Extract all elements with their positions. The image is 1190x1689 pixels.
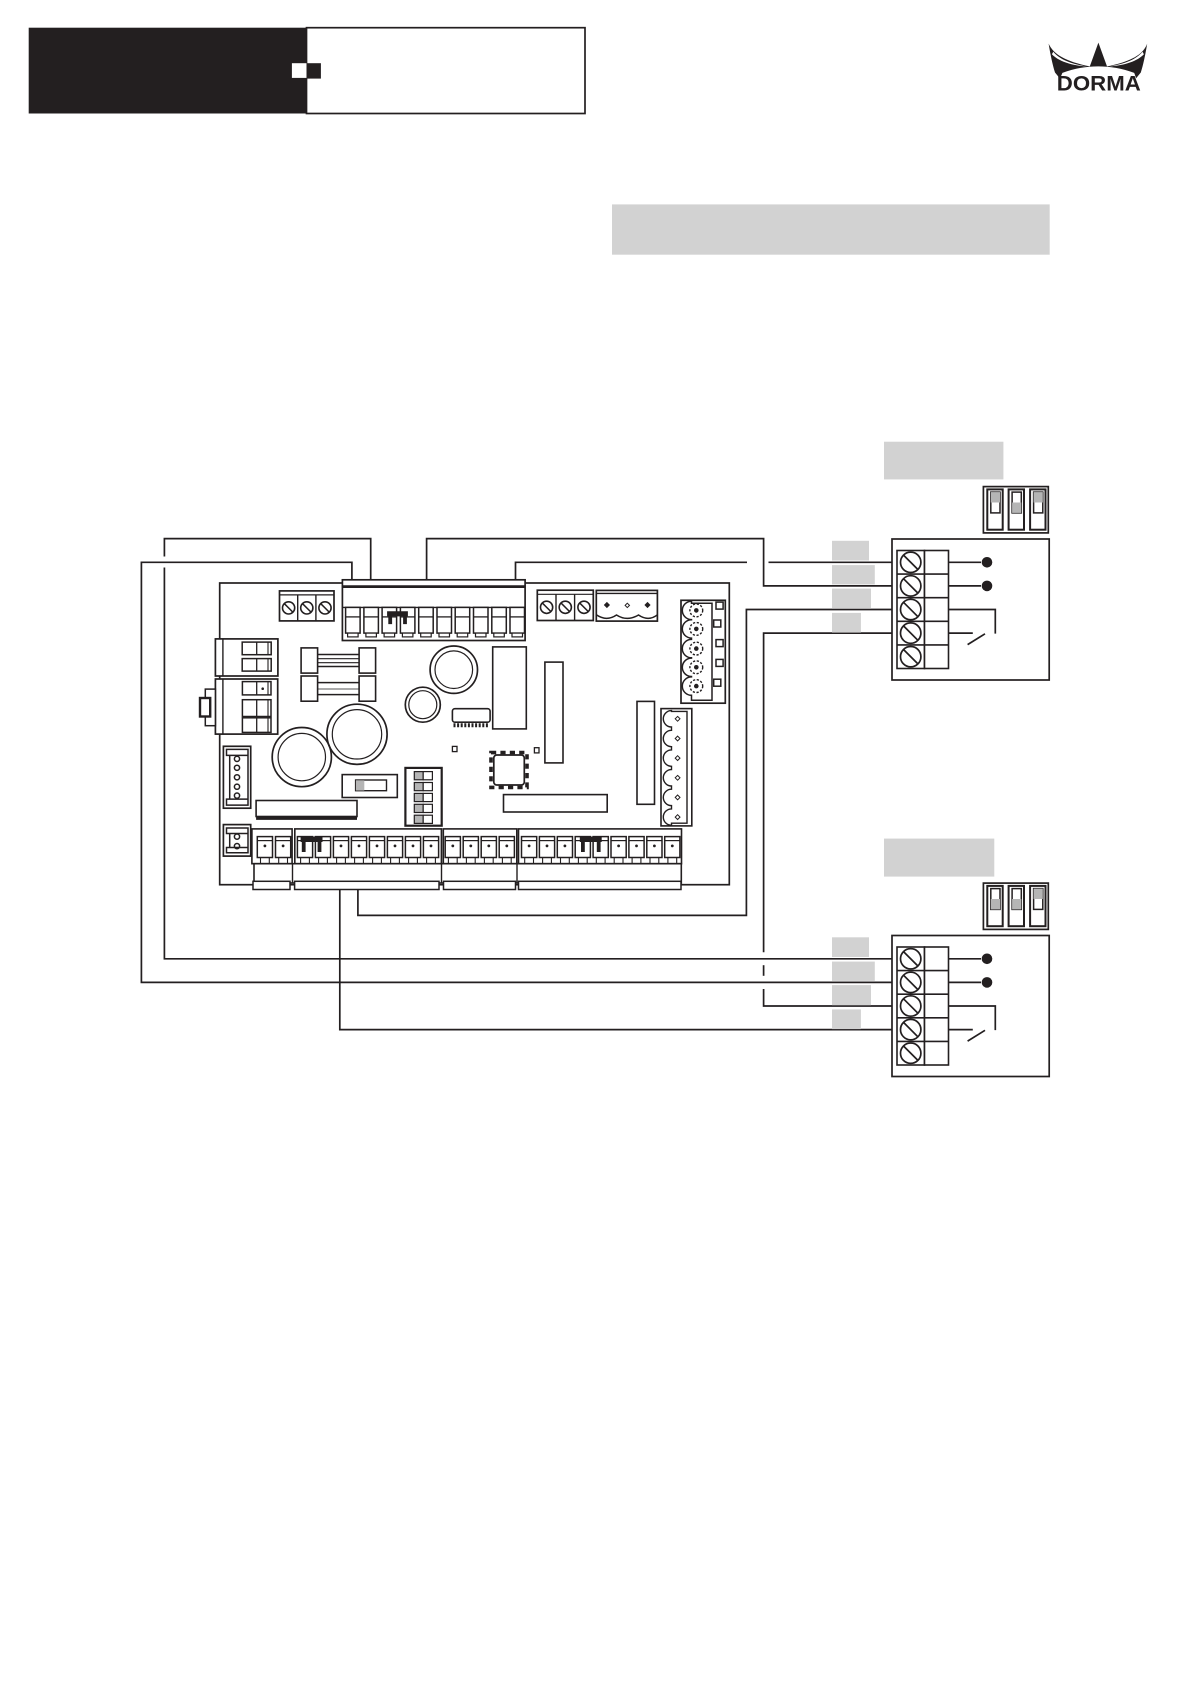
svg-text:DORMA: DORMA (1057, 71, 1141, 95)
